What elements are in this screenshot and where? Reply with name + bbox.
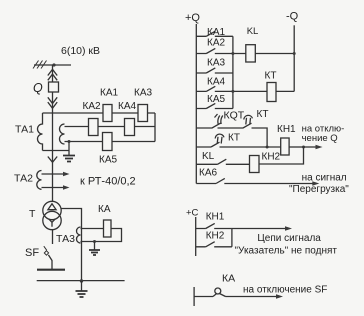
- wire main feeder upper: [52, 65, 54, 82]
- contact KH2: [196, 242, 232, 247]
- contact KL: [196, 159, 249, 164]
- contact KA latched: [194, 293, 217, 296]
- wire KL to -Q: [255, 53, 294, 55]
- busbar 6(10)kV: [34, 64, 71, 66]
- svg-text:КА4: КА4: [118, 101, 136, 112]
- wire transformer branch to TA3: [61, 209, 81, 282]
- relay coil KH2: [250, 156, 260, 173]
- svg-text:-Q: -Q: [286, 11, 299, 23]
- transformer T winding HV: [43, 201, 61, 219]
- svg-text:КА: КА: [222, 273, 235, 285]
- relay coil KA5: [103, 133, 113, 151]
- wire rowB: [220, 146, 281, 148]
- node busbar tap: [52, 63, 55, 66]
- relay coil KA1: [103, 105, 112, 122]
- svg-text:KL: KL: [202, 151, 215, 162]
- rail +C: [195, 217, 197, 256]
- wire main feeder below breaker: [52, 92, 54, 201]
- svg-text:Цепи сигнала: Цепи сигнала: [257, 233, 321, 244]
- wire busbar ground tap: [81, 281, 83, 291]
- svg-text:КН1: КН1: [206, 212, 225, 223]
- node KA group KT: [231, 90, 234, 93]
- node rowA rowB: [266, 146, 269, 149]
- contact KA4: [196, 86, 267, 91]
- plug-in contact upper chevrons: [48, 69, 57, 80]
- svg-text:SF: SF: [25, 247, 39, 259]
- relay coil KT: [267, 83, 276, 102]
- svg-text:"Перегрузка": "Перегрузка": [289, 184, 349, 195]
- svg-text:КТ: КТ: [257, 109, 269, 120]
- svg-text:КА6: КА6: [199, 168, 217, 179]
- rail +Q: [195, 24, 197, 184]
- node KA group KL: [231, 52, 234, 55]
- svg-text:+Q: +Q: [185, 12, 200, 24]
- svg-text:КQТ: КQТ: [224, 110, 245, 122]
- CT TA1 winding A: [38, 113, 43, 151]
- wire KH1 out: [289, 146, 303, 148]
- svg-text:"Указатель" не поднят: "Указатель" не поднят: [235, 246, 338, 257]
- wire right vertical of relay block: [154, 113, 156, 142]
- relay coil KA4: [125, 119, 135, 136]
- svg-text:КА1: КА1: [207, 27, 225, 38]
- svg-text:на отключение SF: на отключение SF: [243, 285, 327, 296]
- transformer T delta symbol: [48, 204, 56, 210]
- wire arrow signal ukazatel: [232, 228, 288, 230]
- svg-text:ТА1: ТА1: [15, 124, 34, 136]
- wire TA1 common return: [43, 150, 70, 152]
- breaker SF cross mark: [44, 246, 49, 255]
- cable marker chevron: [48, 157, 57, 163]
- wire row3 common return: [65, 141, 156, 143]
- node busbar junction: [80, 279, 83, 282]
- wire KH1-KH2 vertical: [231, 229, 233, 247]
- wire KT to -Q corner: [276, 90, 294, 92]
- contact KA2: [196, 48, 246, 53]
- svg-text:ТА3: ТА3: [56, 233, 75, 245]
- svg-text:КА3: КА3: [134, 88, 152, 99]
- wire TA2 lower with arrow: [42, 187, 67, 189]
- contact KT slip: [218, 115, 253, 128]
- relay coil KA2: [89, 119, 99, 136]
- wire arrow to trip SF: [226, 296, 279, 298]
- relay coil KH1: [281, 138, 289, 155]
- transformer T star symbol: [49, 219, 56, 227]
- svg-text:ТА2: ТА2: [14, 173, 33, 185]
- contact KA6: [196, 178, 315, 183]
- svg-text:КА5: КА5: [99, 155, 117, 166]
- CT TA1 winding C: [60, 124, 65, 144]
- rail -Q: [293, 25, 295, 91]
- node KL rail: [293, 52, 296, 55]
- node TA3 ground tap: [93, 240, 96, 243]
- relay coil KA3: [138, 105, 148, 122]
- contact KQT: [196, 114, 223, 128]
- wire main feeder to SF: [52, 230, 54, 244]
- rail KA bottom: [193, 287, 195, 306]
- svg-text:6(10) кВ: 6(10) кВ: [61, 45, 100, 57]
- svg-text:КА4: КА4: [207, 76, 225, 87]
- svg-text:KL: KL: [247, 26, 259, 37]
- ground busbar: [76, 291, 88, 297]
- contact KA1: [196, 31, 233, 36]
- contact KA3: [196, 68, 233, 73]
- breaker SF lower terminal bar: [37, 269, 65, 271]
- CT TA3 winding: [77, 227, 81, 243]
- svg-text:КА2: КА2: [83, 101, 101, 112]
- svg-text:на сигнал: на сигнал: [302, 172, 347, 183]
- svg-text:КН1: КН1: [277, 124, 296, 135]
- svg-text:КН2: КН2: [262, 152, 281, 163]
- ground TA1 common: [63, 156, 75, 162]
- breaker Q box: [49, 82, 59, 92]
- relay coil KA: [104, 220, 112, 237]
- wire rowA to rowB: [252, 128, 268, 147]
- contact KH1: [196, 223, 232, 228]
- CT TA2 winding: [37, 171, 42, 190]
- wire TA3 secondary loop: [81, 229, 122, 242]
- wire TA3 ground tap: [94, 242, 96, 251]
- svg-text:КА3: КА3: [207, 57, 225, 68]
- ground TA3: [89, 250, 100, 255]
- svg-text:КТ: КТ: [228, 133, 240, 144]
- wire ground tap: [68, 142, 70, 156]
- svg-text:+С: +С: [186, 208, 199, 219]
- contact KA5: [196, 103, 233, 108]
- svg-text:КА: КА: [98, 204, 111, 215]
- svg-text:КА1: КА1: [100, 88, 118, 99]
- plug-in contact lower chevrons: [48, 97, 57, 108]
- busbar 0.4kV: [37, 280, 125, 282]
- svg-text:КН2: КН2: [206, 231, 225, 242]
- system hatch marks: [33, 61, 47, 69]
- contact KT delay: [196, 134, 224, 147]
- wire row2 phase C: [65, 126, 156, 128]
- wire KH2 out: [259, 147, 304, 164]
- svg-text:к РТ-40/0,2: к РТ-40/0,2: [80, 176, 136, 188]
- svg-text:Q: Q: [33, 81, 43, 95]
- svg-text:КА2: КА2: [207, 37, 225, 48]
- wire parallel group vertical: [232, 36, 234, 108]
- wire TA2 upper with arrow: [42, 173, 67, 175]
- breaker SF blade: [48, 255, 52, 269]
- wire arrow to trip Q: [304, 146, 319, 148]
- transformer T winding LV: [43, 211, 61, 229]
- relay coil KL: [246, 45, 256, 62]
- svg-text:Т: Т: [29, 208, 36, 220]
- svg-text:КТ: КТ: [265, 71, 277, 82]
- svg-text:КА5: КА5: [207, 94, 225, 105]
- svg-text:чение Q: чение Q: [302, 133, 338, 144]
- node common ground tap: [68, 140, 71, 143]
- wire row1 phase A: [43, 112, 156, 114]
- arrow signal overload: [312, 181, 319, 186]
- node KH outputs: [302, 146, 305, 149]
